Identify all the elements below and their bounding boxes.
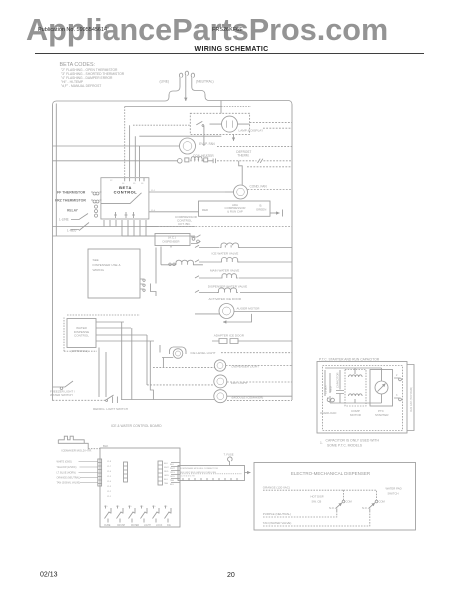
thermal fuse [228,457,233,466]
module left pin labels [170,464,175,486]
dispenser water valve coil L3 [221,274,238,278]
see dispenser wiring note box [88,249,140,298]
svg-text:TAN: TAN [170,479,175,482]
svg-text:J2-5: J2-5 [107,476,112,478]
svg-text:TAN: TAN [164,482,169,485]
pin arrows column [191,235,201,293]
svg-text:J2-3: J2-3 [107,486,112,488]
svg-text:YELLOW (12VDC): YELLOW (12VDC) [57,466,77,469]
board output connector [158,461,163,485]
svg-text:J2-8: J2-8 [107,461,112,463]
svg-text:SW. CB: SW. CB [312,500,322,504]
refrig door switch [106,395,118,403]
svg-text:ORANGE (120 VAC): ORANGE (120 VAC) [263,485,290,489]
svg-text:WATER PAD: WATER PAD [386,487,402,491]
svg-text:WHITE (GND): WHITE (GND) [57,461,72,464]
wire orange [263,490,377,500]
svg-text:J2-2: J2-2 [107,491,112,493]
svg-text:FRZ THERMISTOR: FRZ THERMISTOR [55,199,86,203]
ice pad switch S1 [336,503,343,509]
svg-text:GREEN: GREEN [256,208,266,212]
lamp switch [196,121,204,146]
evap fan motor [180,138,196,154]
wire line-bus left [53,87,181,401]
svg-text:LIGHT: LIGHT [144,525,151,527]
beta control board U1 [101,178,149,219]
svg-text:ICE LEVEL LIGHT: ICE LEVEL LIGHT [191,351,216,355]
svg-text:COM: COM [346,500,353,504]
wire auger motor [195,312,292,314]
svg-text:SWITCH: SWITCH [388,492,399,496]
svg-text:REFRIG. LIGHT SWITCH: REFRIG. LIGHT SWITCH [93,407,128,411]
aux dispenser box [155,234,190,246]
switch labels [104,524,171,527]
svg-text:J2-1: J2-1 [107,496,112,498]
ice water valve coil L1 [220,243,240,248]
svg-text:RUN CAP. (TOP VIEW): RUN CAP. (TOP VIEW) [410,387,413,412]
ptc outer second edge [407,365,414,431]
svg-text:OVERLOAD: OVERLOAD [320,411,336,415]
svg-text:SOME P.T.C. MODELS: SOME P.T.C. MODELS [327,444,363,448]
svg-text:HOT DISP.: HOT DISP. [311,495,325,499]
svg-text:(LINE): (LINE) [160,80,170,84]
wire valve row 2 [199,261,292,263]
svg-text:(NEUTRAL): (NEUTRAL) [196,80,214,84]
svg-text:1 2 3 4 5 6: 1 2 3 4 5 6 7 8 [181,476,196,478]
board pin symbols [107,461,112,498]
svg-text:DISPENSER MODULE CONNECTOR: DISPENSER MODULE CONNECTOR [181,468,219,470]
wire purple [263,513,337,518]
wire tan [263,513,370,527]
svg-text:N.O.: N.O. [152,506,156,508]
svg-text:RED: RED [329,386,333,392]
cond fan motor [234,185,248,199]
ground arrow from plug [185,87,187,101]
vertical drops [99,322,160,400]
line switch [71,214,89,231]
svg-text:ELECTRO-MECHANICAL DISPENSER: ELECTRO-MECHANICAL DISPENSER [291,471,371,476]
svg-text:WHT: WHT [164,467,169,469]
beta control pin labels [110,180,144,185]
header rule [35,53,424,55]
dispenser control wires staircase [96,322,154,341]
svg-text:COIL HEATER: COIL HEATER [193,154,214,158]
wire collector net [122,227,195,237]
auger motor [219,304,234,319]
svg-text:N.O.: N.O. [104,506,108,508]
svg-text:WIRING: WIRING [93,268,105,272]
svg-text:3: 3 [396,394,398,397]
water dispense control box [67,319,96,348]
svg-text:N.O.: N.O. [128,506,132,508]
electro-mechanical dispenser box [254,463,416,531]
svg-text:20: 20 [227,572,235,579]
ada compressor box [199,201,271,216]
svg-text:CONTROL: CONTROL [114,190,138,195]
svg-text:TAN (SIGNAL VALVE): TAN (SIGNAL VALVE) [57,482,81,485]
ice water control board box [100,448,180,527]
svg-text:ICEMAKER MOLD HTR.: ICEMAKER MOLD HTR. [61,449,92,453]
svg-text:CKT. BD.: CKT. BD. [178,222,191,226]
beta control top pin ticks [125,178,144,182]
label ice disp switch [311,495,325,504]
svg-text:N.C.: N.C. [140,506,144,508]
svg-text:N.C.: N.C. [116,506,120,508]
wire valve row 4 [199,292,292,294]
overload protector [327,398,334,402]
wire left bus second [55,104,57,237]
svg-text:DISPENSER: DISPENSER [163,239,180,243]
svg-text:ICE WATER VALVE: ICE WATER VALVE [212,252,239,256]
label compressor control [175,215,198,226]
relay contact stack [94,205,97,217]
svg-text:N.C.: N.C. [164,506,168,508]
svg-text:RELAY: RELAY [67,209,79,213]
wire dispenser light row [153,367,215,369]
connector pair [192,238,199,243]
svg-text:ADAPTER ICE DOOR: ADAPTER ICE DOOR [214,333,245,337]
svg-text:N.O.: N.O. [362,506,368,510]
label comp motor [350,409,361,417]
beta control bottom pin marks [114,212,135,218]
svg-text:ICE & WATER CONTROL BOARD: ICE & WATER CONTROL BOARD [111,424,162,428]
svg-text:GRN: GRN [164,475,169,477]
svg-text:AUGER MOTOR: AUGER MOTOR [237,307,261,311]
freezer light [214,375,227,388]
svg-text:THERM.: THERM. [237,153,249,157]
svg-text:1.: 1. [320,441,323,445]
svg-text:FRS26KF6E: FRS26KF6E [212,27,243,33]
svg-text:P.T.C. STARTER AND RUN CAPACIT: P.T.C. STARTER AND RUN CAPACITOR [319,358,380,362]
svg-text:CAPACITOR: CAPACITOR [336,373,340,388]
svg-text:ORG: ORG [170,472,175,474]
svg-text:TAN (WATER VALVE): TAN (WATER VALVE) [263,521,292,525]
svg-text:J2: J2 [110,180,113,182]
svg-text:BLK: BLK [103,444,108,448]
svg-text:RED: RED [164,471,169,473]
power plug prongs [179,71,194,87]
module icemaker [214,390,227,403]
svg-text:CAPACITOR IS ONLY USED WITH: CAPACITOR IS ONLY USED WITH [326,439,380,443]
svg-text:BLK: BLK [170,464,175,466]
svg-text:J2-4: J2-4 [107,481,112,483]
comp motor dashed box [345,370,366,407]
label freezer light switch [50,390,75,398]
wire bottom dashed boundary [227,400,292,402]
label ptc starter [375,409,388,417]
lamp box [190,113,249,134]
board output stubs [171,463,180,483]
left step wires [151,246,172,296]
svg-text:MAIN WATER VALVE: MAIN WATER VALVE [210,268,239,272]
label defrost therm [236,150,251,158]
wire ice level light [162,358,173,368]
svg-text:L-LINE: L-LINE [59,218,69,222]
wire lamp feed [220,101,222,114]
auger return arrow [223,314,252,322]
svg-text:LOCK: LOCK [156,525,163,527]
svg-text:WHT: WHT [170,468,175,470]
wire to cond fan [239,161,243,185]
actuator contacts [212,339,292,344]
board harness labels [57,461,81,485]
dispenser interface module [178,466,245,481]
wire freezer light row [147,384,214,386]
svg-text:WATER SWITCH: WATER SWITCH [50,393,73,397]
svg-text:J2-7: J2-7 [107,466,112,468]
run capacitor symbol C1 [336,370,344,400]
dispenser light [214,360,225,371]
svg-text:DISPENSER USE &: DISPENSER USE & [93,263,122,267]
svg-text:J5: J5 [133,183,136,185]
svg-text:FF THERMISTOR: FF THERMISTOR [57,191,86,195]
wire feeder cross nets [133,124,190,126]
water pad switch S2 [369,503,376,509]
ptc internal wires [325,368,382,403]
ptc inner dashed box [323,366,403,431]
svg-text:L-NEU: L-NEU [67,229,77,233]
output pin labels [164,463,169,485]
svg-text:GRN: GRN [170,476,175,478]
wire upper feed net [125,106,221,108]
wire module row [53,399,107,401]
svg-text:COND. FAN: COND. FAN [250,185,268,189]
beta control feeder wires [124,107,126,178]
FRZ thermistor connector [91,200,102,203]
wire valve row 1 [199,247,292,249]
wire valve row 3 [199,277,292,279]
svg-text:& RUN CAP: & RUN CAP [227,210,243,214]
water dispense control dashed outline [64,318,97,352]
harness leader wires [79,462,98,483]
main water valve coil L2 [220,258,239,263]
caption capacitor note [326,439,380,448]
svg-text:STARTER: STARTER [375,413,388,417]
freezer door switch [53,381,74,390]
svg-text:WATER: WATER [131,524,139,527]
svg-text:EVAP. FAN: EVAP. FAN [199,142,215,146]
svg-text:(OPTIONAL): (OPTIONAL) [71,349,88,353]
ice door solenoid L4 [217,288,238,293]
wire cond fan [225,191,234,193]
svg-text:PURPLE (NEUTRAL): PURPLE (NEUTRAL) [263,512,291,516]
water valve secondary coil [161,260,203,265]
svg-text:COM: COM [379,500,386,504]
svg-text:LAMP & DISPLAY: LAMP & DISPLAY [239,129,264,133]
ptc outer box [317,362,407,434]
svg-text:BLU: BLU [164,479,169,481]
svg-text:CONTROL: CONTROL [74,334,89,338]
svg-text:J2-6: J2-6 [107,471,112,473]
ptc right pins [394,378,401,401]
ice level light [173,349,183,359]
beta control bottom pin wires [104,220,146,236]
beta control internal relay contact [101,193,142,204]
svg-text:BLK: BLK [164,463,169,465]
svg-text:BLU: BLU [170,484,175,486]
board ic chip [124,462,128,482]
wire relay nets [53,227,158,237]
wire lamp inner leads [210,123,250,125]
svg-text:LT. BLUE (HORN): LT. BLUE (HORN) [57,472,76,475]
svg-text:N.O.: N.O. [329,506,335,510]
svg-text:L1 BLK: L1 BLK [324,385,328,394]
ada output arrow [270,212,280,214]
comp motor main winding [349,375,363,377]
svg-text:"d,F" - MANUAL DEFROST: "d,F" - MANUAL DEFROST [61,84,101,88]
icemaker mold heater element [58,436,88,449]
label water pad switch [386,487,402,496]
ptc starter disc [375,381,388,394]
wire evap fan branch [53,145,180,147]
board input connector J1 [98,459,102,486]
beta control right nets [149,192,225,212]
svg-text:ORANGE (NEUTRAL): ORANGE (NEUTRAL) [57,477,81,480]
svg-text:SEE: SEE [93,258,99,262]
lamp [222,116,238,132]
ice level light holder [170,347,187,354]
svg-text:02/13: 02/13 [40,572,58,579]
svg-text:CUBE: CUBE [104,525,111,527]
svg-text:ICE: ICE [167,525,171,527]
arrow to defrost therm [233,134,235,141]
svg-text:J6: J6 [141,183,144,185]
wire dashed stubs to right bus [217,123,292,167]
svg-text:BLK WHT RED GRN BLU TAN: BLK WHT RED GRN BLU TAN ORG [181,471,217,474]
svg-text:RED: RED [202,208,208,212]
svg-text:FZR. LIGHT: FZR. LIGHT [231,381,248,385]
wire neutral-bus right [192,87,292,400]
module output arrow [245,472,251,474]
svg-text:T. FUSE: T. FUSE [224,453,234,457]
svg-text:WIRING SCHEMATIC: WIRING SCHEMATIC [195,46,269,53]
svg-text:MOTOR: MOTOR [350,413,361,417]
module pin ticks [183,478,237,481]
board bottom switches [104,506,171,523]
comp motor start winding [349,394,363,396]
svg-text:Publication No. 5995545614: Publication No. 5995545614 [38,27,107,33]
ptc starter box [370,370,393,407]
defrost heater resistor [53,157,293,163]
svg-text:ACTIVATED ICE DOOR: ACTIVATED ICE DOOR [209,297,242,301]
note box side connectors [140,279,145,291]
wire ptc left leads [325,370,330,396]
FF thermistor connector [91,192,102,195]
svg-text:CRUSH: CRUSH [117,525,126,527]
beta codes legend [60,62,125,88]
svg-text:2: 2 [396,374,398,377]
